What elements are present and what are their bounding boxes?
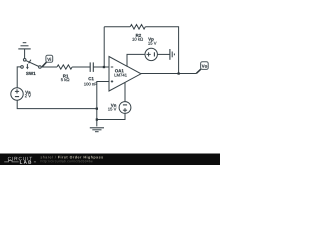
resistor R1 xyxy=(57,65,72,69)
footer title text xyxy=(41,156,56,159)
wire feedback left vertical xyxy=(103,27,105,67)
wire switch common to R1 xyxy=(40,66,57,68)
wire R1 to C1 xyxy=(72,66,90,68)
node Vo flag xyxy=(196,62,208,74)
junction at output node xyxy=(178,72,180,74)
ground G3 (sideways, right of Vp) xyxy=(170,49,175,60)
wire feedback top right segment and right vertical xyxy=(145,27,178,74)
label OA1 xyxy=(115,69,124,72)
voltage source Va xyxy=(11,88,23,100)
label 15 V (Vn) xyxy=(108,108,116,111)
footer logo CIRCUIT xyxy=(8,157,32,160)
label Va xyxy=(25,91,30,94)
voltage source Vp xyxy=(145,48,157,60)
label 15 V (Vp) xyxy=(148,42,156,45)
label R2 xyxy=(136,34,141,37)
op-amp OA1 xyxy=(109,57,141,92)
junction Va rail / ground xyxy=(96,108,98,110)
footer url text xyxy=(41,160,93,163)
label 10 kOhm xyxy=(132,38,143,41)
ground G2 (bottom) xyxy=(90,128,104,132)
capacitor C1 xyxy=(90,62,93,72)
wire feedback top left segment xyxy=(104,26,130,28)
wire switch throw to Va top xyxy=(17,67,22,88)
label LM741 xyxy=(115,74,127,77)
label Vn xyxy=(111,104,116,107)
wire C1 to op-amp inverting input xyxy=(93,66,109,68)
footer bar xyxy=(0,154,220,166)
junction at inverting node xyxy=(103,66,105,68)
footer logo LAB xyxy=(20,161,31,164)
label Vp xyxy=(148,38,153,42)
wire Vn return to ground rail xyxy=(97,113,125,119)
switch SW1 xyxy=(21,59,42,69)
label R1 xyxy=(63,74,68,77)
wire Va bottom to ground rail xyxy=(17,100,97,108)
label 5 kOhm xyxy=(61,78,69,81)
wire op-amp output xyxy=(141,73,196,75)
voltage source Vn xyxy=(119,102,131,114)
wire V+ supply pin xyxy=(127,54,145,66)
ground G1 (top left) xyxy=(18,43,30,49)
label 100 nF xyxy=(84,83,97,86)
wire V- supply pin xyxy=(124,82,126,101)
node Vi flag xyxy=(42,55,53,66)
resistor R2 xyxy=(130,25,145,30)
wire op-amp + input down to ground xyxy=(97,82,109,127)
footer logo squiggle xyxy=(4,160,36,162)
label SW1 xyxy=(26,72,36,75)
wire ground G1 to switch xyxy=(24,49,26,60)
label 2 V xyxy=(25,94,31,97)
junction Vn return / ground xyxy=(96,118,98,120)
wire Vp to side ground xyxy=(157,53,170,55)
label C1 xyxy=(88,77,93,80)
